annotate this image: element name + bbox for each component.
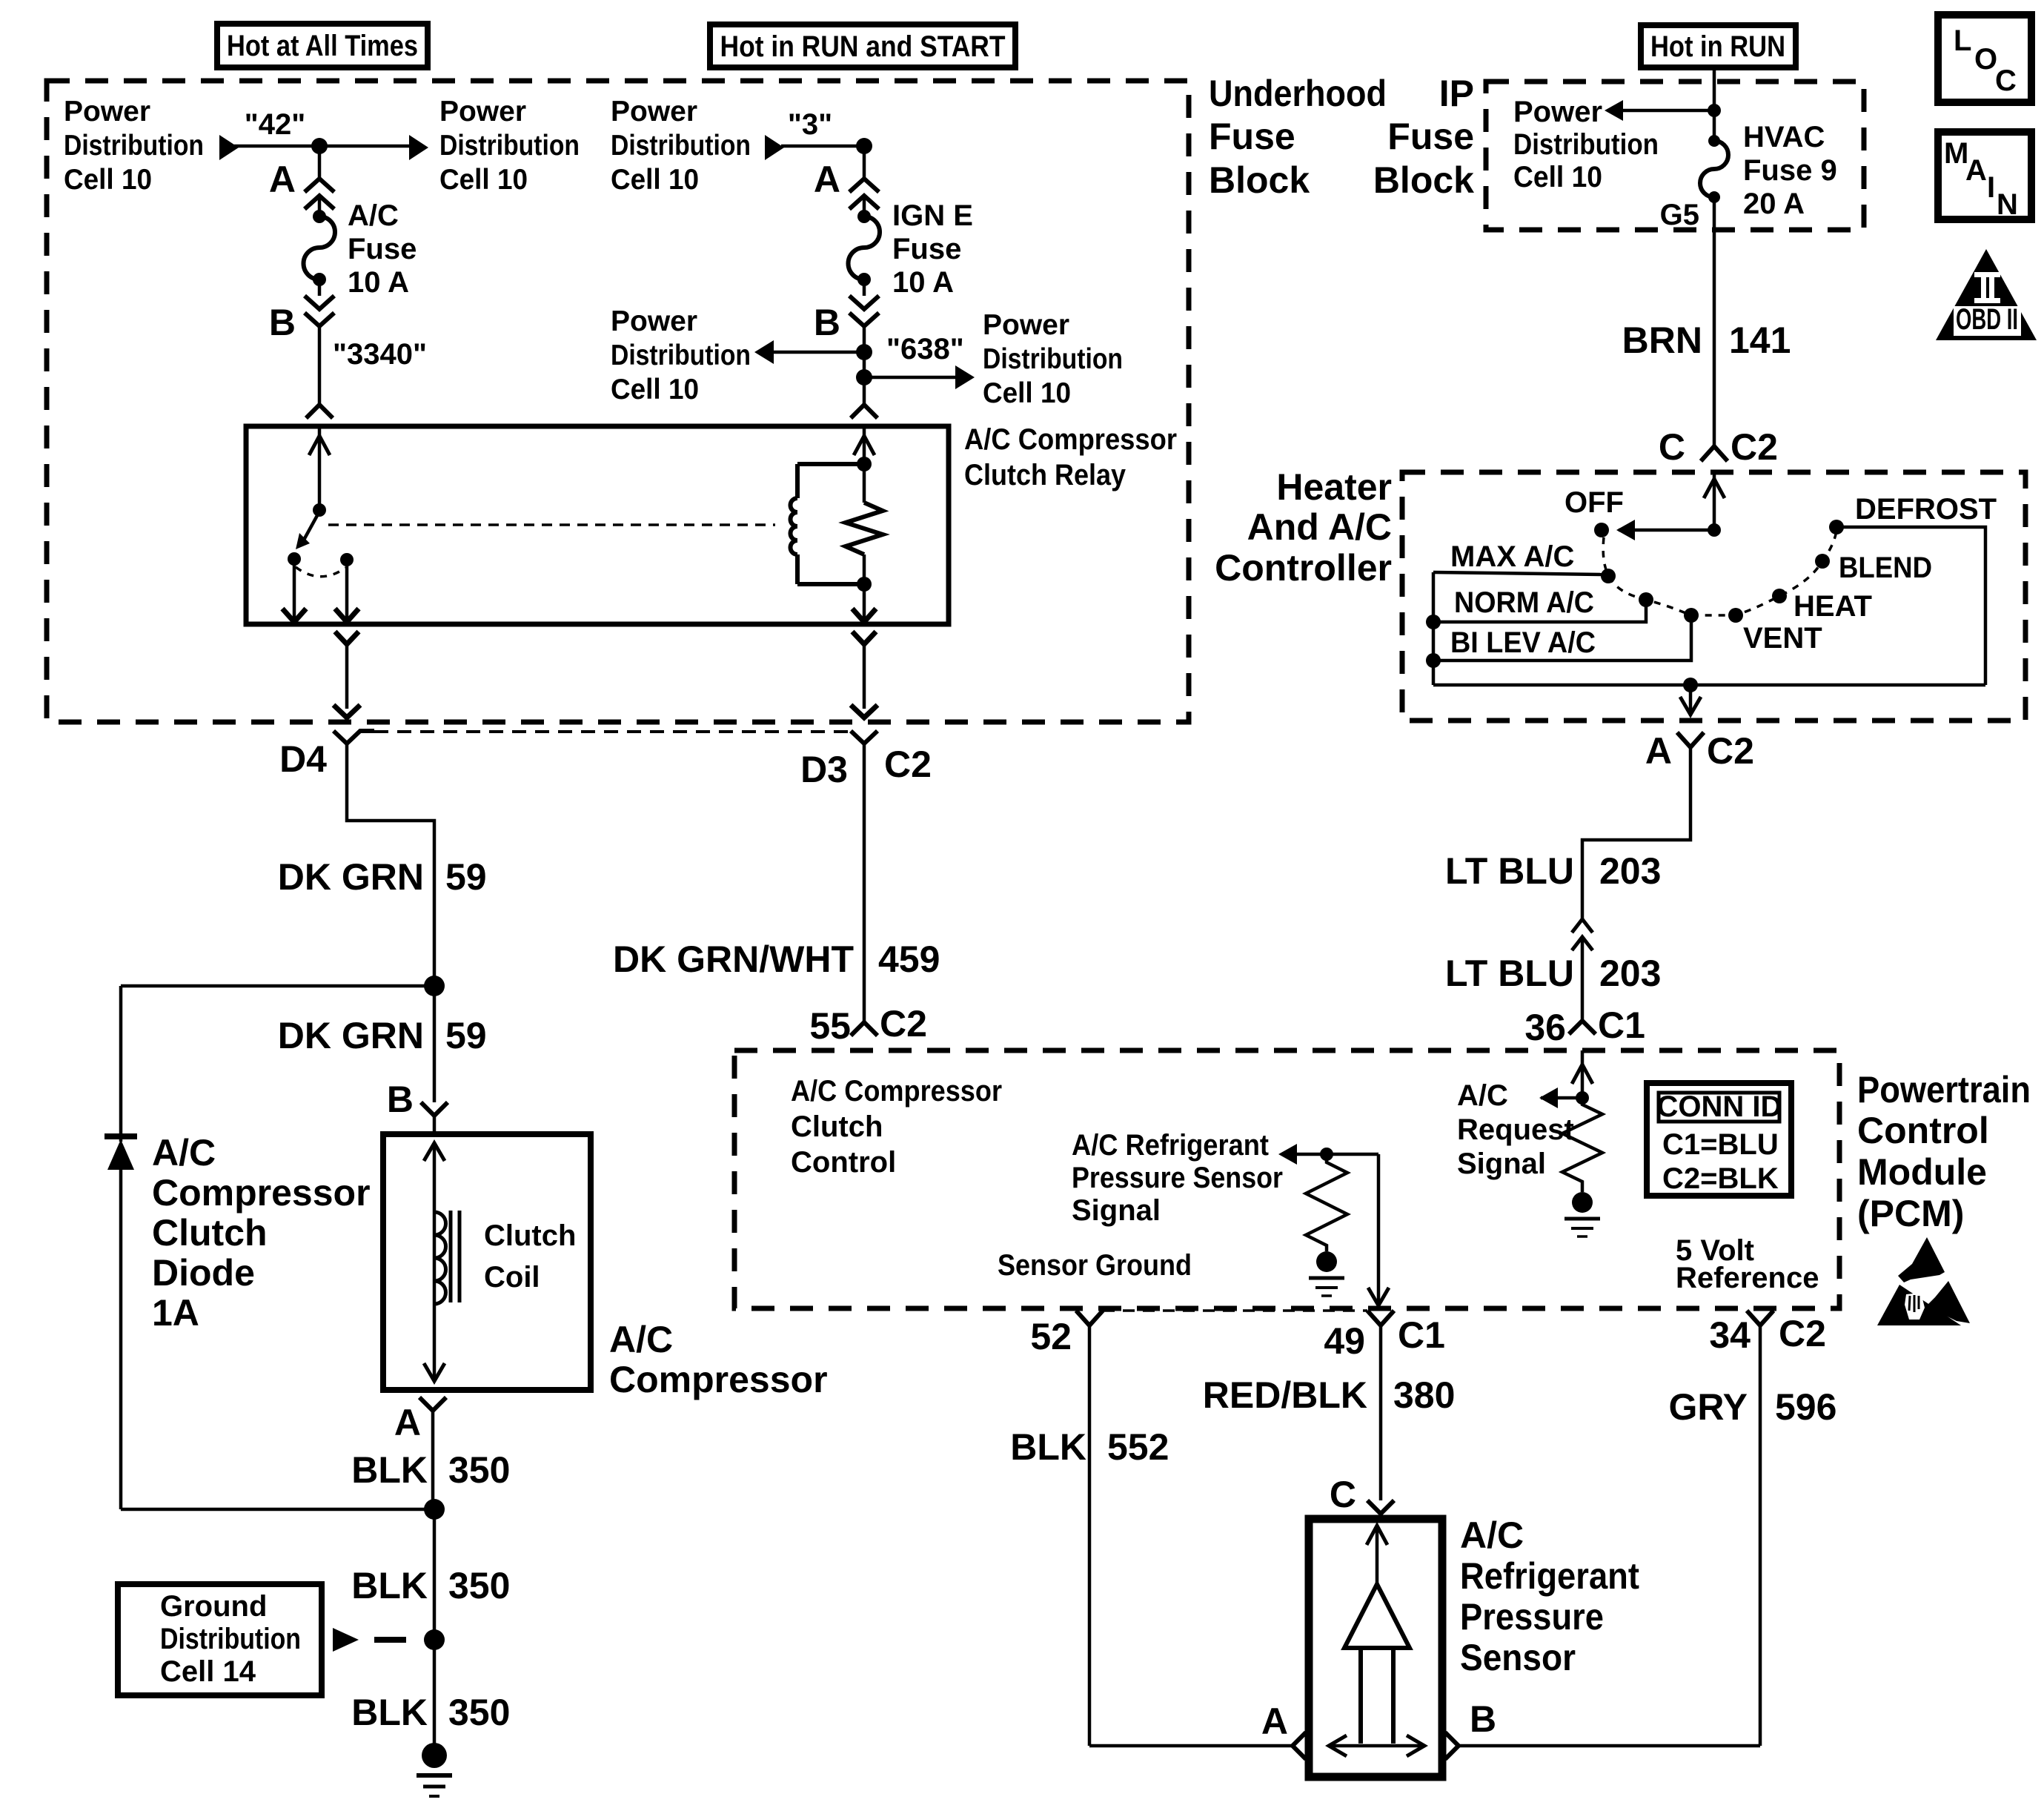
svg-text:Distribution: Distribution (439, 130, 580, 162)
node junction 638 (856, 365, 975, 389)
MAIN reference box (1938, 132, 2031, 221)
svg-text:Distribution: Distribution (983, 343, 1123, 375)
connector pin C of pressure sensor (1330, 1474, 1394, 1519)
svg-text:"3340": "3340" (333, 338, 427, 371)
svg-text:A: A (814, 159, 840, 200)
node junction BLK diode return (121, 1499, 445, 1520)
svg-text:Fuse: Fuse (892, 233, 961, 265)
svg-text:596: 596 (1775, 1386, 1836, 1428)
label box Hot at All Times (217, 24, 428, 67)
wire GRY 596 (1669, 1325, 1837, 1746)
node Sensor Ground (998, 1249, 1192, 1282)
svg-text:Compressor: Compressor (152, 1172, 371, 1214)
svg-text:Cell 10: Cell 10 (611, 164, 699, 196)
relay coil (791, 457, 872, 584)
svg-text:OBD II: OBD II (1956, 303, 2018, 336)
connector D4 (279, 731, 374, 780)
svg-text:A/C: A/C (348, 199, 399, 232)
svg-text:49: 49 (1324, 1320, 1365, 1362)
wire label BLK 350 second (351, 1565, 510, 1606)
wire 36 C1 into PCM (1539, 1050, 1593, 1108)
svg-text:380: 380 (1393, 1374, 1455, 1416)
wire pressure signal down to 49 (1368, 1154, 1389, 1305)
svg-text:Signal: Signal (1072, 1194, 1161, 1227)
svg-text:A: A (1965, 154, 1987, 187)
connector 52 (1030, 1311, 1103, 1357)
svg-text:Clutch: Clutch (791, 1110, 883, 1143)
svg-text:B: B (814, 302, 840, 343)
wire connector A to fuse (863, 197, 866, 216)
wire power distribution arrow left (1605, 100, 1721, 121)
connector pin A of compressor (394, 1397, 446, 1509)
connector 49 C1 (1324, 1311, 1445, 1362)
wire fuse to connector B (318, 279, 322, 296)
svg-text:O: O (1974, 43, 1997, 76)
svg-text:C2: C2 (880, 1003, 927, 1044)
svg-text:Compressor: Compressor (609, 1359, 828, 1400)
svg-text:BLK: BLK (351, 1449, 428, 1491)
ground G104 (417, 1743, 452, 1796)
ground internal (A/C request) (1564, 1192, 1600, 1236)
svg-text:C: C (1995, 64, 2017, 97)
connector A C2 (controller) (1645, 730, 1754, 772)
node A/C Request Signal (1457, 1079, 1574, 1180)
svg-text:Sensor Ground: Sensor Ground (998, 1249, 1192, 1282)
wire relay right entry (854, 426, 875, 464)
svg-text:A/C Compressor: A/C Compressor (791, 1075, 1002, 1108)
sensor amplifier symbol (1344, 1526, 1410, 1744)
svg-text:B: B (269, 302, 296, 343)
svg-text:Cell 14: Cell 14 (160, 1655, 256, 1688)
node junction DK GRN (424, 976, 445, 996)
wire label BLK 350 first (351, 1449, 510, 1491)
svg-text:Power: Power (611, 305, 697, 337)
svg-text:Module: Module (1857, 1151, 1987, 1193)
switch positions VENT HEAT BLEND DEFROST (1728, 493, 1997, 655)
svg-text:Underhood: Underhood (1209, 73, 1387, 114)
svg-text:Block: Block (1209, 159, 1310, 201)
svg-text:BRN: BRN (1622, 320, 1702, 361)
svg-text:I: I (1987, 171, 1995, 204)
connector boundary dashed line C1 (1103, 1309, 1367, 1312)
svg-text:Distribution: Distribution (611, 130, 751, 162)
node Power Distribution Cell 10 (feed 42 left) (64, 96, 204, 196)
node Power Distribution Cell 10 (feed 42 right) (439, 96, 580, 196)
svg-text:N: N (1997, 188, 2018, 221)
svg-text:A/C: A/C (152, 1132, 216, 1173)
svg-text:DEFROST: DEFROST (1855, 493, 1997, 526)
svg-text:141: 141 (1729, 320, 1791, 361)
OBD II symbol (1936, 249, 2037, 340)
node junction 42 (311, 138, 328, 154)
svg-text:BI LEV A/C: BI LEV A/C (1450, 626, 1596, 659)
connector pin B of compressor (387, 1079, 448, 1134)
node Power Distribution Cell 10 (right of 638) (983, 309, 1123, 409)
wire D3 to 55 C2 (863, 744, 866, 1022)
node Power Distribution Cell 10 (left of 638) (611, 305, 751, 405)
svg-text:LT BLU: LT BLU (1445, 953, 1574, 994)
svg-text:Signal: Signal (1457, 1148, 1546, 1180)
node A/C Refrigerant Pressure Sensor Signal (1072, 1129, 1378, 1227)
svg-text:OFF: OFF (1564, 486, 1624, 519)
svg-text:Power: Power (64, 96, 150, 128)
A/C refrigerant pressure sensor box (1309, 1514, 1639, 1777)
wire junction to diode branch (121, 986, 434, 1142)
svg-text:Power: Power (439, 96, 526, 128)
svg-text:Controller: Controller (1215, 547, 1392, 589)
wire junction to compressor pin B (433, 986, 437, 1102)
connector pin A of pressure sensor (1089, 1701, 1306, 1759)
svg-text:34: 34 (1709, 1314, 1751, 1356)
connector pin A of A/C fuse (269, 159, 334, 209)
node Heater And A/C Controller label (1215, 466, 1392, 589)
connector 36 C1 (1524, 1004, 1645, 1048)
svg-text:Coil: Coil (484, 1261, 540, 1294)
wire BLK 552 (1010, 1325, 1169, 1746)
svg-text:Reference: Reference (1676, 1262, 1819, 1294)
wire B down through junctions (863, 326, 866, 405)
IP fuse block dashed box (1486, 82, 1864, 230)
svg-text:Block: Block (1373, 159, 1474, 201)
fuse HVAC Fuse 9 20 A (1700, 121, 1837, 220)
svg-text:Distribution: Distribution (160, 1623, 301, 1655)
fuse A/C Fuse 10 A (303, 199, 417, 299)
node Powertrain Control Module (PCM) label (1857, 1069, 2031, 1234)
svg-text:C2: C2 (1707, 730, 1754, 772)
connector pin A of IGN E fuse (814, 159, 879, 209)
svg-text:DK GRN/WHT: DK GRN/WHT (613, 938, 854, 980)
svg-text:RED/BLK: RED/BLK (1203, 1374, 1367, 1416)
wire relay coil output to D3 (851, 632, 877, 718)
svg-text:59: 59 (445, 1015, 487, 1056)
svg-text:Refrigerant: Refrigerant (1460, 1555, 1639, 1597)
svg-text:Fuse: Fuse (1387, 116, 1474, 157)
svg-text:"3": "3" (788, 108, 832, 141)
clutch coil element (424, 1143, 576, 1381)
net label "3340" (333, 338, 427, 371)
wire C2 entry into controller (1616, 472, 1725, 540)
relay contact left (282, 552, 306, 622)
svg-text:Fuse: Fuse (1209, 116, 1295, 157)
resistor A/C request pull (1562, 1098, 1602, 1192)
label box Hot in RUN (1641, 25, 1796, 67)
svg-text:C2: C2 (884, 744, 932, 785)
wire label DK GRN 59 upper (278, 856, 487, 898)
svg-text:And A/C: And A/C (1247, 506, 1392, 548)
svg-text:VENT: VENT (1743, 622, 1822, 655)
A/C compressor box (383, 1134, 828, 1400)
svg-text:55: 55 (809, 1005, 851, 1047)
fuse IGN E Fuse 10 A (849, 199, 973, 299)
node Power Distribution Cell 10 (feed 3 left) (611, 96, 751, 196)
ground internal (pressure signal) (1309, 1251, 1344, 1296)
node IP Fuse Block label (1373, 73, 1474, 201)
svg-text:A: A (1645, 730, 1672, 772)
svg-text:Cell 10: Cell 10 (611, 374, 699, 405)
connector pin B of pressure sensor (1445, 1698, 1760, 1759)
svg-text:Fuse 9: Fuse 9 (1743, 154, 1837, 187)
wire label BLK 350 third (351, 1692, 510, 1733)
svg-text:10 A: 10 A (892, 266, 954, 299)
svg-text:G5: G5 (1660, 199, 1699, 231)
ground distribution cell 14 box (118, 1584, 322, 1695)
svg-text:D3: D3 (800, 749, 848, 790)
label box Hot in RUN and START (710, 24, 1015, 67)
svg-text:B: B (1470, 1698, 1496, 1740)
svg-text:L: L (1954, 24, 1971, 57)
connector C C2 (1659, 426, 1778, 468)
svg-text:Distribution: Distribution (64, 130, 204, 162)
svg-text:MAX A/C: MAX A/C (1450, 540, 1574, 573)
svg-text:Heater: Heater (1276, 466, 1392, 508)
svg-text:203: 203 (1599, 953, 1661, 994)
svg-text:CONN ID: CONN ID (1657, 1090, 1782, 1123)
svg-text:C2: C2 (1779, 1313, 1826, 1354)
wire 3 feed arrow (765, 135, 864, 160)
svg-text:Distribution: Distribution (611, 340, 751, 371)
wire junction 3 down to connector A (863, 146, 866, 178)
wire 42 to Power Distribution right arrow (409, 135, 428, 160)
svg-text:IP: IP (1439, 73, 1474, 114)
svg-text:BLEND: BLEND (1839, 552, 1932, 584)
svg-text:Control: Control (1857, 1110, 1989, 1151)
svg-text:"638": "638" (886, 333, 964, 365)
switch position NORM A/C (1426, 586, 1653, 629)
svg-text:Power: Power (1513, 96, 1602, 128)
svg-text:Pressure: Pressure (1460, 1596, 1604, 1638)
wire controller output down (1680, 685, 1701, 715)
svg-text:Control: Control (791, 1146, 896, 1179)
connector D3 C2 (800, 731, 932, 790)
connector inline LT BLU splice (1572, 919, 1593, 950)
connector 34 C2 (1709, 1311, 1826, 1356)
node A/C Compressor Clutch Control (791, 1075, 1002, 1179)
node Power Distribution Cell 10 (IP) (1513, 96, 1659, 193)
wire BRN 141 (1622, 197, 1791, 442)
svg-text:BLK: BLK (351, 1692, 428, 1733)
svg-text:GRY: GRY (1669, 1386, 1748, 1428)
node 5 Volt Reference (1676, 1234, 1819, 1294)
wire controller common bus (1433, 527, 1985, 692)
switch position OFF (1564, 486, 1624, 537)
node junction B-left (754, 340, 872, 364)
wire junction 42 down to connector A (318, 146, 322, 178)
relay switch arm (296, 503, 326, 549)
svg-text:Sensor: Sensor (1460, 1637, 1576, 1678)
LOC reference box (1938, 15, 2031, 102)
wire D4 to junction (DK GRN 59) (347, 744, 434, 986)
relay A/C Compressor Clutch Relay box (246, 423, 1177, 624)
wire 3340 down to relay (306, 326, 333, 418)
connector boundary dashed line C2 (374, 730, 849, 733)
net label "42" (245, 108, 305, 141)
svg-text:350: 350 (448, 1692, 510, 1733)
wire LT BLU 203 (1445, 747, 1690, 919)
wire Hot in RUN down (1713, 67, 1716, 141)
switch position BI LEV A/C (1426, 608, 1699, 668)
svg-text:DK GRN: DK GRN (278, 856, 424, 898)
net label "638" (886, 333, 964, 365)
wire fuse to connector B (863, 279, 866, 296)
svg-text:Power: Power (611, 96, 697, 128)
svg-text:(PCM): (PCM) (1857, 1193, 1964, 1234)
rotary switch dashed arc (1603, 531, 1836, 615)
wire LT BLU 203 lower (1445, 937, 1661, 1021)
connector into relay (638 wire) (851, 405, 877, 418)
svg-text:350: 350 (448, 1565, 510, 1606)
svg-text:"42": "42" (245, 108, 305, 141)
switch position MAX A/C (1433, 540, 1616, 583)
svg-text:C1: C1 (1598, 1004, 1645, 1046)
wire label DK GRN 59 lower (278, 1015, 487, 1056)
CONN ID table (1647, 1083, 1791, 1196)
connector pin B of A/C fuse (269, 296, 334, 343)
svg-text:B: B (387, 1079, 414, 1120)
node junction 3 (856, 138, 872, 154)
svg-text:Diode: Diode (152, 1252, 255, 1294)
relay linkage dashed line (328, 523, 775, 526)
connector 55 C2 (809, 1003, 927, 1047)
svg-text:Request: Request (1457, 1113, 1574, 1146)
svg-text:Cell 10: Cell 10 (64, 164, 152, 196)
PCM dashed box (734, 1050, 1839, 1308)
svg-text:Cell 10: Cell 10 (983, 377, 1071, 409)
svg-text:C: C (1659, 426, 1685, 468)
svg-text:A/C: A/C (609, 1319, 673, 1360)
svg-text:BLK: BLK (1010, 1426, 1086, 1468)
svg-text:A/C Compressor: A/C Compressor (964, 423, 1177, 456)
svg-text:20 A: 20 A (1743, 188, 1805, 220)
svg-text:Cell 10: Cell 10 (439, 164, 528, 196)
wire RED/BLK 380 (1203, 1325, 1456, 1500)
svg-text:D4: D4 (279, 738, 327, 780)
pin G5 (1660, 199, 1699, 231)
svg-text:C2: C2 (1731, 426, 1778, 468)
wire BLK down (433, 1509, 437, 1755)
svg-text:Clutch: Clutch (484, 1219, 576, 1252)
underhood fuse block dashed border (47, 81, 1189, 722)
connector pin B of IGN E fuse (814, 296, 879, 343)
svg-text:A/C: A/C (1460, 1514, 1524, 1556)
svg-text:C: C (1330, 1474, 1356, 1515)
svg-text:Clutch: Clutch (152, 1212, 268, 1254)
svg-text:350: 350 (448, 1449, 510, 1491)
svg-text:Cell 10: Cell 10 (1513, 161, 1602, 193)
svg-text:Ground: Ground (160, 1590, 267, 1623)
wire connector A to fuse (318, 197, 322, 216)
relay contact right (335, 553, 359, 622)
wire 42 feed arrow (219, 135, 411, 160)
svg-text:Pressure Sensor: Pressure Sensor (1072, 1162, 1283, 1194)
relay contact dashed throw arc (296, 567, 345, 577)
svg-text:HEAT: HEAT (1794, 590, 1872, 623)
svg-text:A: A (269, 159, 296, 200)
svg-text:DK GRN: DK GRN (278, 1015, 424, 1056)
svg-text:Hot at All Times: Hot at All Times (227, 30, 418, 62)
wire relay left entry (309, 426, 330, 510)
resistor pressure signal pull (1306, 1148, 1347, 1251)
svg-text:C1: C1 (1398, 1314, 1445, 1356)
svg-text:BLK: BLK (351, 1565, 428, 1606)
wire coil to relay bottom (852, 584, 876, 622)
svg-text:459: 459 (878, 938, 940, 980)
svg-text:Hot in RUN and START: Hot in RUN and START (720, 30, 1006, 63)
svg-text:A/C Refrigerant: A/C Refrigerant (1072, 1129, 1269, 1162)
svg-text:A: A (394, 1402, 421, 1443)
svg-text:Hot in RUN: Hot in RUN (1650, 30, 1785, 63)
svg-text:Powertrain: Powertrain (1857, 1069, 2031, 1110)
heater and A/C controller dashed box (1402, 472, 2025, 721)
wire relay output to D4 (334, 632, 360, 718)
svg-text:A/C: A/C (1457, 1079, 1508, 1112)
sensor pressure inlet double arrow (1329, 1735, 1424, 1756)
svg-text:552: 552 (1107, 1426, 1169, 1468)
net label "3" (788, 108, 832, 141)
diode A/C Compressor Clutch Diode 1A (104, 1132, 371, 1509)
ground distribution arrow to node (333, 1628, 445, 1652)
svg-text:Fuse: Fuse (348, 233, 417, 265)
svg-text:C2=BLK: C2=BLK (1662, 1162, 1779, 1195)
svg-text:1A: 1A (152, 1292, 199, 1334)
svg-text:36: 36 (1524, 1007, 1566, 1048)
svg-text:A: A (1261, 1701, 1288, 1742)
wire label DK GRN/WHT 459 (613, 938, 940, 980)
svg-text:LT BLU: LT BLU (1445, 850, 1574, 892)
svg-text:Clutch Relay: Clutch Relay (964, 459, 1126, 491)
ESD symbol (1877, 1237, 1970, 1325)
svg-text:52: 52 (1030, 1316, 1072, 1357)
svg-text:NORM A/C: NORM A/C (1454, 586, 1594, 619)
svg-text:C1=BLU: C1=BLU (1662, 1128, 1779, 1161)
svg-text:203: 203 (1599, 850, 1661, 892)
svg-text:HVAC: HVAC (1743, 121, 1825, 153)
svg-text:59: 59 (445, 856, 487, 898)
relay coil resistor (846, 464, 883, 592)
svg-text:IGN E: IGN E (892, 199, 973, 232)
svg-text:Distribution: Distribution (1513, 128, 1659, 161)
svg-text:10 A: 10 A (348, 266, 409, 299)
node Underhood Fuse Block label (1209, 73, 1387, 201)
svg-text:Power: Power (983, 309, 1069, 341)
